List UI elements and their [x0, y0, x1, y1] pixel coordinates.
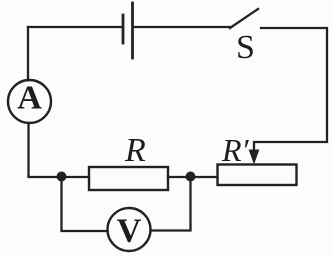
svg-text:R′: R′	[221, 132, 250, 168]
svg-text:A: A	[17, 80, 42, 117]
svg-text:V: V	[117, 213, 142, 250]
svg-text:R: R	[124, 132, 146, 169]
svg-text:S: S	[236, 29, 255, 66]
